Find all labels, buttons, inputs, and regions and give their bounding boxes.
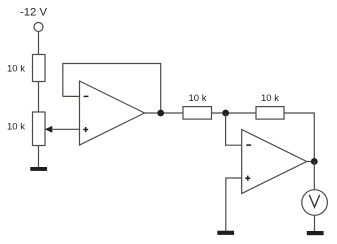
op-amp U1 non-inverting input mark: [83, 127, 88, 132]
wire U1 inverting input: [63, 95, 80, 97]
junction U2 output node: [311, 158, 318, 165]
ground voltmeter: [307, 231, 324, 235]
wire voltmeter to ground: [314, 215, 316, 231]
wire R2 to R3: [212, 112, 257, 114]
wire U1 feedback loop: [63, 64, 161, 114]
svg-text:10 k: 10 k: [7, 121, 25, 132]
ground U2 input: [217, 231, 234, 235]
potentiometer P1 wiper arrow: [45, 126, 53, 133]
voltmeter M1 letter V: [309, 195, 319, 207]
resistor R1: [33, 55, 46, 82]
op-amp U2 inverting input mark: [246, 144, 251, 146]
wire U1 output: [145, 112, 184, 114]
wire terminal to R1: [38, 31, 40, 54]
wire R3 feedback to U2 output: [284, 113, 314, 162]
svg-text:-12 V: -12 V: [20, 6, 47, 18]
wire R1 to P1: [38, 82, 40, 113]
ground left: [30, 167, 47, 171]
svg-text:10 k: 10 k: [7, 63, 25, 74]
svg-text:10 k: 10 k: [261, 93, 279, 104]
potentiometer P1 body: [33, 112, 46, 146]
wire P1 to ground: [38, 146, 40, 168]
resistor R3: [256, 107, 284, 120]
resistor R2: [183, 107, 212, 120]
svg-text:10 k: 10 k: [189, 93, 207, 104]
wire U2 non-inverting input to ground: [226, 178, 242, 231]
op-amp U1: [80, 81, 145, 145]
wire wiper to op-amp U1 non-inverting input: [52, 128, 80, 130]
op-amp U2 non-inverting input mark: [245, 176, 250, 181]
wire summing node to U2 inverting input: [226, 113, 242, 145]
junction U1 output node: [157, 110, 164, 117]
op-amp U2: [242, 130, 307, 194]
junction summing node: [222, 110, 229, 117]
power terminal -12 V: [34, 23, 43, 32]
voltmeter M1: [302, 190, 328, 216]
wire node to voltmeter: [313, 162, 315, 191]
wire U2 output: [307, 161, 315, 163]
op-amp U1 inverting input mark: [84, 95, 89, 97]
